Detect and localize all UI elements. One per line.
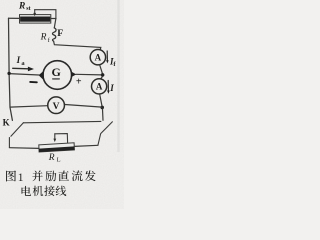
- wire left blade to bottom: [8, 138, 10, 148]
- wire left bus to G: [9, 74, 39, 75]
- page edge streak: [117, 0, 119, 152]
- wire right blade to bottom: [98, 134, 101, 145]
- field winding coil F: [53, 28, 57, 41]
- switch K right blade: [101, 122, 113, 134]
- current arrow If: [106, 51, 109, 63]
- DC bar under G: [53, 78, 60, 80]
- wire switch horizontal: [23, 121, 101, 122]
- svg-text:L: L: [57, 156, 61, 163]
- wire V left: [10, 106, 48, 107]
- wire coil to corner: [54, 41, 101, 50]
- wire A1 to node: [100, 65, 103, 74]
- slider arrow of RL: [53, 134, 67, 143]
- svg-text:I: I: [109, 83, 114, 93]
- node junction Ia: [7, 72, 10, 75]
- svg-text:A: A: [96, 82, 103, 92]
- wire bottom left: [9, 147, 39, 150]
- node junction voltmeter right: [100, 106, 104, 110]
- node junction between ammeters: [101, 73, 105, 77]
- svg-text:F: F: [57, 28, 63, 39]
- switch K left blade: [11, 123, 24, 137]
- svg-text:I: I: [16, 55, 21, 65]
- svg-text:V: V: [53, 102, 60, 112]
- wire A2 to node 2: [100, 94, 102, 106]
- svg-text:+: +: [76, 76, 82, 87]
- svg-text:st: st: [26, 6, 30, 12]
- caption char 线: [56, 186, 67, 196]
- svg-text:K: K: [3, 117, 10, 127]
- caption char 直: [59, 171, 69, 182]
- brush right of G: [71, 71, 76, 77]
- svg-text:R: R: [40, 33, 47, 43]
- wire bottom right: [74, 145, 98, 146]
- caption char 流: [72, 170, 83, 181]
- wire top left segment: [9, 17, 20, 19]
- ammeter A2: [92, 79, 107, 94]
- resistor Rst box: [20, 15, 51, 24]
- current arrow Ia: [13, 67, 34, 72]
- caption char 并: [32, 170, 43, 181]
- wire node to A2: [101, 77, 103, 79]
- wire field vertical: [54, 18, 56, 28]
- svg-text:R: R: [18, 1, 25, 11]
- minus sign at G left: [30, 81, 37, 83]
- caption char 励: [46, 171, 57, 182]
- current arrow I: [107, 81, 110, 94]
- load rheostat RL box: [39, 143, 75, 152]
- wire V right: [65, 105, 102, 108]
- svg-text:1: 1: [18, 172, 24, 184]
- svg-text:A: A: [95, 52, 102, 62]
- wire right bus to switch: [102, 109, 105, 120]
- caption char 发: [85, 170, 96, 181]
- generator G armature: [43, 61, 72, 90]
- caption char 图: [6, 171, 16, 182]
- ammeter A1: [90, 50, 105, 65]
- wire top right segment: [51, 18, 56, 20]
- svg-text:R: R: [48, 153, 55, 163]
- svg-text:G: G: [52, 65, 61, 79]
- voltmeter V: [48, 97, 65, 114]
- brush left of G: [39, 71, 44, 80]
- caption char 机: [33, 186, 44, 196]
- wire left bus: [9, 18, 13, 120]
- rheostat slider arrow of Rst: [33, 10, 56, 19]
- caption char 接: [44, 186, 55, 197]
- caption char 电: [21, 186, 31, 196]
- wire G plus terminal to node: [76, 73, 101, 76]
